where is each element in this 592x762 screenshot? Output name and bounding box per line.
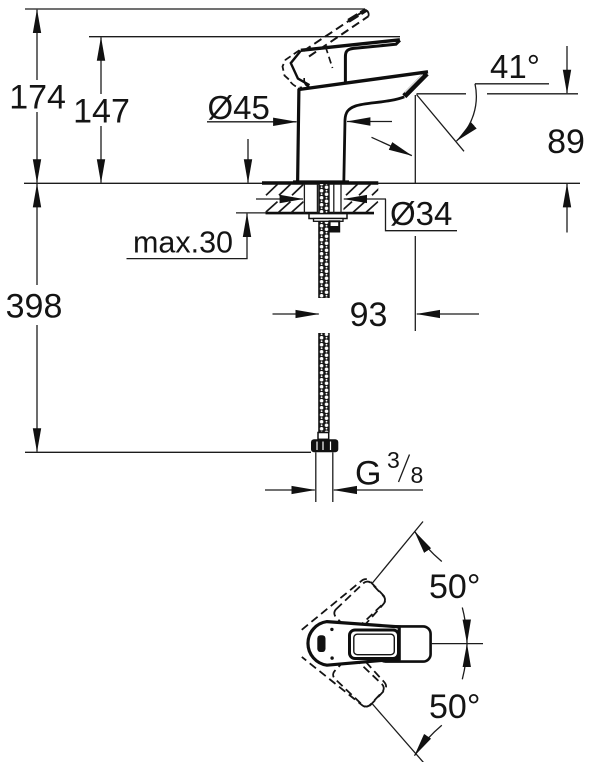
dashed raised cap right edge	[326, 47, 333, 69]
dashed raised cap outline	[283, 50, 300, 80]
svg-text:50°: 50°	[429, 568, 480, 606]
svg-text:174: 174	[9, 78, 66, 116]
water stream direction line	[417, 95, 465, 152]
dashed handle position +50	[302, 573, 392, 662]
cap neck fillet	[304, 78, 310, 87]
dimension 147	[100, 37, 102, 94]
dashed raised lever tip strokes	[349, 10, 367, 21]
spout underside curve and body right edge	[344, 97, 405, 183]
41 degree arc with arrow	[457, 84, 477, 141]
bottom reference line (398)	[25, 451, 311, 453]
lower angle arc segment A with arrow	[415, 725, 442, 755]
hose end nut	[311, 439, 338, 452]
centerline right	[431, 643, 483, 645]
dimension 174	[36, 10, 38, 80]
countertop hatching right	[340, 184, 384, 212]
spout outlet height reference line (89)	[417, 93, 467, 95]
svg-text:50°: 50°	[429, 688, 480, 726]
dashed raised cap bottom curve	[291, 82, 303, 87]
dimension 93	[273, 313, 319, 315]
aerator face	[404, 73, 426, 96]
right side Ø45 arrow	[347, 121, 392, 123]
faucet body outline	[298, 88, 300, 183]
dashed raised lever lower edge	[309, 16, 369, 56]
top reference line (overall height 174)	[25, 8, 365, 10]
countertop bottom line	[236, 212, 266, 214]
mounting washer	[309, 214, 347, 219]
svg-text:G: G	[355, 455, 381, 493]
handle body (top view)	[308, 622, 399, 666]
dashed handle position -50	[302, 625, 392, 714]
svg-text:89: 89	[547, 123, 585, 161]
svg-text:147: 147	[73, 93, 130, 131]
spout top edge	[299, 72, 428, 90]
svg-text:max.30: max.30	[133, 226, 233, 260]
handle dots	[330, 628, 333, 631]
shank outer walls through counter	[303, 184, 305, 213]
93 right extension line (from outlet)	[414, 95, 416, 183]
lever top edge	[301, 40, 400, 51]
svg-text:398: 398	[6, 288, 63, 326]
lever underside and loop	[345, 40, 400, 82]
countertop surface baseline	[24, 182, 580, 184]
handle window inner	[354, 634, 395, 655]
handle logo mark	[317, 635, 325, 652]
flexible braided hose upper segment	[318, 184, 330, 298]
lower angle arc segment B with arrow	[462, 644, 467, 680]
50 degree extension line lower	[372, 704, 424, 762]
shank inner walls	[316, 184, 318, 213]
dimension Ø34 leader left arrow	[256, 198, 303, 200]
washer step	[314, 219, 344, 222]
dimension Ø34 right arrow and label	[344, 198, 386, 200]
faucet base thick line	[293, 180, 349, 183]
countertop thick top edge	[262, 181, 378, 184]
countertop hatching left	[266, 184, 304, 212]
reference line lever height 147	[89, 36, 400, 38]
dimension 398	[36, 184, 38, 285]
lower swivel arc with arrow	[372, 137, 412, 155]
G 3/8 dimension arrows	[265, 489, 315, 491]
handle tip (top view)	[378, 626, 431, 661]
hose end collar	[318, 433, 329, 440]
svg-text:3: 3	[387, 447, 400, 473]
dashed raised lever upper edge	[304, 10, 366, 51]
dimension 89	[566, 46, 568, 93]
svg-text:41°: 41°	[490, 48, 540, 85]
handle window outer	[350, 630, 399, 659]
svg-text:93: 93	[350, 296, 388, 334]
lever pivot cap	[291, 51, 310, 85]
G3/8 connection tube	[315, 452, 317, 502]
upper angle arc segment B with arrow	[462, 608, 467, 644]
50 degree extension line upper	[372, 522, 423, 584]
svg-text:Ø34: Ø34	[390, 195, 452, 232]
svg-text:Ø45: Ø45	[208, 89, 270, 126]
dimension max.30	[247, 139, 249, 183]
svg-text:8: 8	[411, 462, 424, 488]
upper angle arc segment A with arrow	[415, 531, 442, 561]
mounting stud and nut	[330, 221, 340, 231]
flexible braided hose lower segment	[318, 333, 330, 433]
